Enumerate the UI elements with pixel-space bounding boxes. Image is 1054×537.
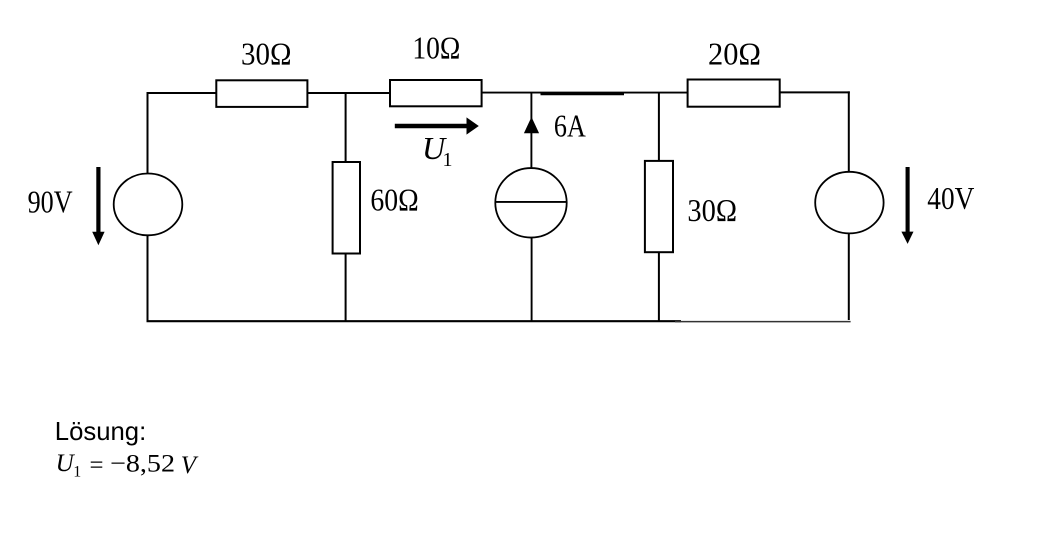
svg-text:1: 1	[73, 463, 81, 480]
label U1	[422, 130, 453, 171]
wire: top rail, R4 to right branch	[780, 91, 850, 93]
wire: top rail, R1 to R2	[307, 92, 390, 94]
svg-text:60Ω: 60Ω	[370, 182, 418, 218]
current source I1 (6A circle with bar)	[495, 168, 566, 238]
svg-text:=: =	[90, 452, 104, 479]
wire: 30Ω branch upper	[658, 92, 660, 162]
resistor R4 20Ω (horizontal box)	[688, 80, 780, 107]
solution formula U1 = -8,52 V	[56, 450, 199, 480]
resistor R1 30Ω (horizontal box)	[216, 80, 307, 107]
wire: top rail, node A to R1	[147, 92, 217, 94]
voltage arrow U1 (rightward)	[395, 117, 479, 134]
wire: overlapping top rail segment (offset)	[541, 93, 625, 95]
wire: right branch upper	[848, 91, 850, 172]
wire: 30Ω branch lower	[658, 252, 660, 322]
svg-text:40V: 40V	[927, 180, 974, 216]
current arrowhead of I1 (upward)	[524, 117, 539, 133]
svg-text:−8,52: −8,52	[110, 451, 175, 478]
svg-text:10Ω: 10Ω	[412, 30, 460, 66]
svg-text:1: 1	[443, 149, 453, 171]
voltage source V2 (40V circle)	[815, 172, 883, 234]
wire: current source branch upper	[530, 92, 532, 169]
voltage arrow of V2 (downward)	[901, 167, 913, 244]
wire: 60Ω branch upper	[345, 92, 347, 163]
wire: 60Ω branch lower	[345, 254, 347, 323]
svg-text:30Ω: 30Ω	[687, 192, 737, 228]
wire: bottom rail right (thin)	[675, 321, 851, 323]
svg-text:20Ω: 20Ω	[708, 36, 761, 72]
voltage source V1 (90V circle)	[114, 174, 183, 236]
svg-text:30Ω: 30Ω	[241, 35, 292, 71]
resistor R3 60Ω (vertical box)	[333, 162, 360, 254]
resistor R2 10Ω (horizontal box)	[390, 80, 482, 106]
wire: right branch lower	[848, 233, 850, 320]
svg-text:V: V	[181, 452, 199, 479]
wire: bottom rail left (thick)	[147, 320, 682, 322]
voltage arrow of V1 (downward)	[92, 167, 104, 245]
svg-text:6A: 6A	[554, 107, 586, 143]
wire: left branch lower	[147, 235, 149, 322]
wire: left branch upper	[147, 92, 149, 174]
resistor R5 30Ω (vertical box)	[645, 161, 673, 252]
svg-text:Lösung:: Lösung:	[55, 418, 146, 446]
svg-text:90V: 90V	[28, 184, 73, 220]
wire: current source branch lower	[531, 238, 533, 323]
wire: top rail, R2 to R4	[482, 92, 688, 94]
